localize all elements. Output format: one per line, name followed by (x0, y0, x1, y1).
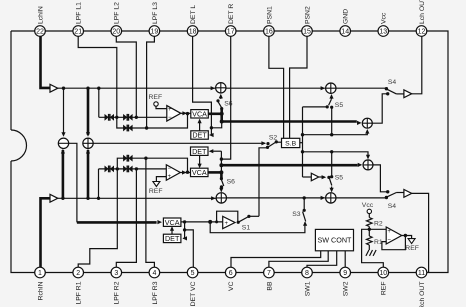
svg-text:14: 14 (341, 29, 349, 36)
svg-text:S6: S6 (227, 179, 236, 186)
pin 10 REF (378, 267, 389, 278)
wire to pin11 (412, 193, 429, 272)
notch (11, 130, 27, 161)
svg-text:DET R: DET R (228, 4, 235, 24)
svg-text:21: 21 (74, 29, 82, 36)
pin 15 PSN2 (302, 26, 313, 37)
svg-text:LPF R3: LPF R3 (152, 281, 159, 304)
wire DET L to VCA control arrow (199, 120, 201, 131)
svg-text:−: − (387, 238, 391, 244)
pin 22 LchIN (35, 26, 46, 37)
SW CONT box (315, 229, 353, 250)
svg-text:VCA: VCA (165, 218, 180, 227)
svg-text:DET VC: DET VC (190, 281, 197, 306)
svg-text:REF: REF (149, 188, 163, 195)
wire S5L contact A (303, 106, 328, 108)
wire U1 out to VCA (181, 112, 191, 114)
svg-text:REF: REF (381, 282, 388, 296)
pin 5 DET VC (187, 267, 198, 278)
wire pin5 DET VC (185, 230, 194, 267)
wire S4R alt contact from sum3R (373, 165, 388, 192)
wire REF to op-amp R (156, 177, 166, 182)
pin 16 PSN1 (264, 26, 275, 37)
buffer Rch out (404, 190, 412, 198)
diode pair D4 (105, 166, 109, 173)
svg-text:22: 22 (36, 29, 44, 36)
svg-text:GND: GND (343, 9, 350, 24)
VCA L box (191, 110, 209, 118)
wire pin16 PSN1 (269, 36, 284, 138)
pin 3 LPF R2 (111, 267, 122, 278)
node summing circle S6 path (211, 86, 216, 90)
pin 9 SW2 (340, 267, 351, 278)
svg-text:Rch OUT: Rch OUT (419, 282, 426, 307)
buffer Lch input (50, 84, 58, 92)
wire Rch LPF row1 (99, 168, 167, 170)
VCA R box (191, 168, 209, 176)
pin 6 VC (225, 267, 236, 278)
wire pin7 BB (269, 251, 328, 267)
svg-text:15: 15 (303, 29, 311, 36)
wire S5L contact B (331, 107, 333, 135)
diode pair D6 (123, 155, 127, 162)
wire row1p feed (98, 169, 100, 198)
svg-text:SW1: SW1 (304, 281, 311, 296)
resistor R2 (368, 214, 370, 218)
svg-text:DET: DET (192, 131, 207, 140)
node summing circle S5 path Rch (326, 193, 336, 203)
switch S5 Lch (331, 96, 333, 100)
wire DET VC feed (183, 222, 184, 239)
pin 12 Lch OUT (416, 26, 427, 37)
Vcc terminal (367, 209, 371, 213)
switch S2 (266, 142, 269, 145)
svg-text:S4: S4 (388, 79, 397, 86)
svg-text:S3: S3 (292, 211, 301, 218)
wire mid line L+R to S2 (93, 142, 265, 144)
wire to pin12 (412, 36, 422, 93)
svg-text:LPF R1: LPF R1 (76, 281, 83, 304)
wire pin6 VC (231, 251, 321, 267)
svg-text:PSN1: PSN1 (266, 6, 273, 24)
wire pin17 DET R (221, 36, 230, 159)
wire U3 feedback loop (217, 211, 238, 222)
wire DET R input (211, 150, 222, 152)
switch S5 Rch (329, 178, 331, 185)
wire subtractor out to VC VCA (69, 143, 77, 222)
wire pin9 SW2 (344, 251, 346, 267)
svg-text:REF: REF (405, 245, 419, 252)
wire pin15 PSN2 (290, 36, 307, 138)
wire DET L feed (211, 122, 221, 136)
wire pin19 LPF L3 (147, 36, 155, 127)
pin 11 Rch OUT (416, 267, 427, 278)
svg-text:19: 19 (151, 29, 159, 36)
wire to second summer (226, 87, 325, 89)
svg-text:1: 1 (38, 270, 42, 277)
node adder circle (L+R) (83, 138, 93, 148)
wire bold down-branch (220, 114, 223, 122)
wire DET R to VCA control arrow (199, 155, 201, 166)
wire DET VC to VCA control arrow (171, 228, 173, 234)
wire pin22 LchIN bold input (41, 36, 51, 88)
svg-text:SW2: SW2 (343, 281, 350, 296)
buffer Lch out (404, 90, 412, 98)
wire pin3 LPF R2 (116, 170, 136, 268)
svg-text:5: 5 (191, 270, 195, 277)
svg-text:4: 4 (152, 270, 156, 277)
svg-text:VC: VC (228, 281, 235, 291)
diode pair D2 (123, 114, 127, 121)
pin 18 DET L (187, 26, 198, 37)
wire pin1 RchIN bold input (41, 198, 51, 267)
wire S5R contact B (331, 152, 333, 177)
svg-text:REF: REF (149, 94, 163, 101)
svg-text:+: + (168, 107, 172, 113)
wire L bold drop to adder (87, 88, 90, 135)
svg-text:DET: DET (165, 234, 180, 243)
svg-text:3: 3 (114, 270, 118, 277)
wire S.B out stub (300, 142, 303, 144)
wire Lch main line y=88.2 (58, 87, 216, 89)
svg-text:16: 16 (265, 29, 273, 36)
op-amp U4 REF buffer (386, 227, 402, 244)
pin 17 DET R (225, 26, 236, 37)
wire VCA R out bold (208, 171, 221, 174)
resistor R1 (368, 227, 370, 237)
wire row1 feed (98, 88, 100, 117)
svg-text:S2: S2 (269, 134, 278, 141)
svg-text:10: 10 (379, 270, 387, 277)
wire Rch LPF row2 (117, 158, 187, 172)
svg-text:−: − (168, 115, 172, 121)
wire S3 riser from VC amp (210, 222, 305, 233)
wire DET R feed vertical (220, 151, 222, 172)
pin 2 LPF R1 (73, 267, 84, 278)
svg-text:17: 17 (227, 29, 235, 36)
wire S1 out (249, 215, 259, 217)
svg-text:R2: R2 (374, 220, 383, 227)
wire node to op-amp (369, 228, 386, 230)
wire node to pin10 REF (362, 229, 384, 267)
svg-text:DET L: DET L (190, 5, 197, 24)
svg-text:LPF L3: LPF L3 (152, 2, 159, 24)
svg-text:Lch OUT: Lch OUT (419, 0, 426, 24)
wire U2 out to VCA (180, 172, 190, 174)
wire Lch direct bold line (222, 120, 357, 123)
wire Lch LPF row2 (117, 114, 188, 128)
svg-text:S6: S6 (224, 101, 233, 108)
DET L box (191, 131, 209, 139)
wire VCA L out bold (208, 113, 221, 116)
REF terminal Lch (154, 102, 158, 106)
svg-text:2: 2 (76, 270, 80, 277)
switch S6 Rch (220, 172, 223, 178)
svg-text:11: 11 (418, 270, 425, 277)
svg-text:S5: S5 (335, 102, 344, 109)
switch S3 (303, 196, 306, 199)
svg-text:PSN2: PSN2 (304, 6, 311, 24)
wire pin2 LPF R1 (78, 170, 117, 268)
svg-text:7: 7 (267, 270, 271, 277)
VCA VC box (163, 218, 181, 226)
svg-text:S1: S1 (242, 225, 251, 232)
svg-text:Vcc: Vcc (381, 12, 388, 24)
wire U4 feedback (382, 236, 406, 250)
pin 21 LPF L1 (73, 26, 84, 37)
svg-text:VCA: VCA (192, 168, 207, 177)
svg-text:9: 9 (343, 270, 347, 277)
svg-text:8: 8 (305, 270, 309, 277)
svg-text:DET: DET (192, 147, 207, 156)
svg-text:LPF L2: LPF L2 (114, 2, 121, 24)
wire sum3 R top input (303, 152, 369, 158)
IC body outline with index notch (11, 31, 448, 273)
buffer Rch input (50, 194, 58, 202)
svg-text:LPF R2: LPF R2 (114, 281, 121, 304)
svg-text:20: 20 (112, 29, 120, 36)
wire pin18 DET L (193, 36, 212, 128)
diode pair D5 (123, 166, 127, 173)
node summing circle 3 Lch (362, 118, 372, 128)
switch S4 Lch (385, 87, 388, 90)
pin 1 RchIN (35, 267, 46, 278)
svg-text:VCA: VCA (192, 109, 207, 118)
node summing circle S5 path Lch (326, 83, 336, 93)
wire VCA VC out (181, 221, 223, 223)
pin 8 SW1 (302, 267, 313, 278)
svg-text:S.B: S.B (285, 141, 296, 148)
ground (366, 250, 376, 256)
op-amp U1 Lch (167, 106, 181, 122)
diode pair D1 (105, 114, 109, 121)
svg-text:−: − (168, 166, 172, 172)
pin 20 LPF L2 (111, 26, 122, 37)
node subtractor circle (L-R) (58, 138, 68, 148)
wire sum3 L bottom input (303, 131, 368, 135)
wire pin21 LPF L1 (78, 36, 117, 116)
svg-text:+: + (225, 221, 229, 227)
svg-text:S5: S5 (335, 175, 344, 182)
svg-text:BB: BB (266, 281, 273, 291)
REF terminal Rch (153, 182, 160, 187)
wire S4 alt contact from sum3 (372, 94, 387, 123)
wire S6 up-branch bold (220, 109, 223, 114)
svg-text:LchIN: LchIN (37, 6, 44, 24)
svg-text:+: + (387, 229, 391, 235)
wire center PSN vertical (302, 107, 304, 177)
wire R bold rise to subtractor (62, 150, 65, 198)
svg-text:Vcc: Vcc (362, 202, 374, 209)
svg-text:SW CONT: SW CONT (317, 236, 352, 245)
switch S4 Rch (387, 193, 397, 198)
svg-text:18: 18 (189, 29, 197, 36)
node summing circle S6 path Rch (211, 196, 216, 200)
wire S2 alt from S1 (259, 148, 268, 217)
switch S1 (237, 221, 240, 224)
pin 4 LPF R3 (149, 267, 160, 278)
wire Lch LPF row1 (99, 116, 167, 118)
DET R box (191, 147, 209, 155)
pin 7 BB (264, 267, 275, 278)
DET VC box (163, 234, 181, 242)
pin 13 Vcc (378, 26, 389, 37)
buffer S.B to S5R (303, 176, 312, 178)
op-amp U2 Rch (166, 165, 180, 181)
wire pin4 LPF R3 (146, 159, 155, 267)
node summing circle 3 Rch (363, 160, 373, 170)
wire U4 out to REF (405, 236, 411, 239)
diode pair D3 (123, 125, 127, 132)
wire to second summer Rch (227, 197, 325, 199)
op-amp U3 VC (223, 216, 235, 228)
S.B box (282, 138, 300, 147)
svg-text:S4: S4 (388, 203, 397, 210)
pin 19 LPF L3 (149, 26, 160, 37)
switch S6 Lch (220, 107, 223, 110)
svg-text:6: 6 (229, 270, 233, 277)
svg-text:+: + (168, 174, 172, 180)
svg-text:12: 12 (418, 29, 426, 36)
svg-text:RchIN: RchIN (37, 281, 44, 300)
REF output terminal (408, 239, 415, 244)
wire L drop to subtractor (63, 88, 65, 135)
wire pin8 SW1 (307, 251, 337, 267)
pin 14 GND (340, 26, 351, 37)
wire Rch main line y=198.3 (58, 197, 216, 199)
wire pin20 LPF L2 (116, 36, 136, 116)
wire REF to op-amp (156, 106, 167, 108)
svg-text:13: 13 (379, 29, 387, 36)
wire Rch direct bold line (221, 164, 357, 167)
wire Lch sum out to S4 (336, 87, 386, 89)
wire Rch sum out to S4 (336, 197, 386, 199)
wire R bold rise to adder (87, 150, 90, 198)
svg-text:LPF L1: LPF L1 (76, 2, 83, 24)
